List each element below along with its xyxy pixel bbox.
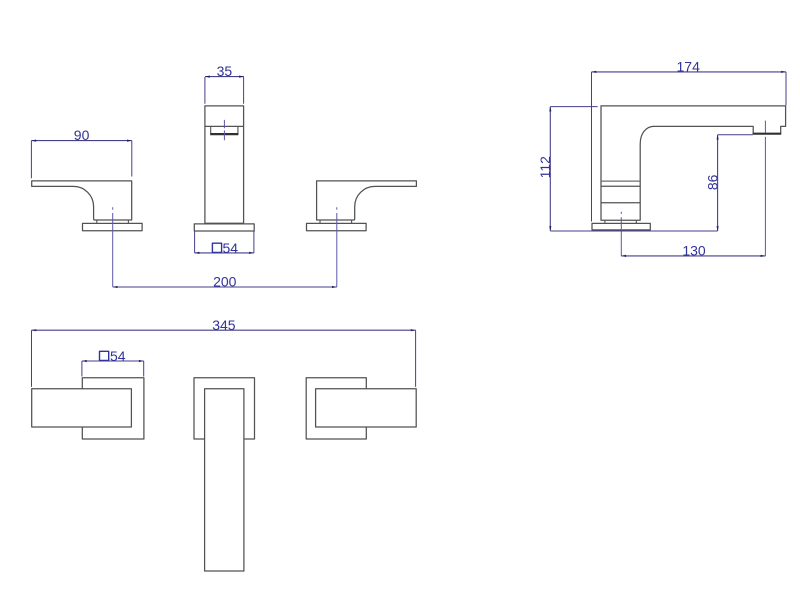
spout aerator front <box>211 126 238 134</box>
side nozzle centerline <box>764 121 766 256</box>
dimension 112 extension top <box>550 106 597 108</box>
right handle escutcheon <box>307 223 367 230</box>
side valve centerline <box>620 212 622 256</box>
side body internal line 1 <box>601 180 640 182</box>
dimension 174 line <box>592 71 787 73</box>
dimension square54 front line <box>195 252 254 254</box>
plan right lever <box>316 389 417 427</box>
spout body front <box>205 106 244 223</box>
left handle stem tick right <box>127 220 129 223</box>
svg-text:86: 86 <box>704 174 720 190</box>
svg-text:112: 112 <box>537 156 553 179</box>
dimension 35 arrows <box>205 76 244 78</box>
dimension 86 extension top <box>718 134 753 136</box>
dimension 174 arrows <box>592 71 787 73</box>
left handle escutcheon <box>83 223 143 230</box>
left handle centerline <box>112 207 114 287</box>
spout cap line front <box>205 125 244 127</box>
side stem tick right <box>635 220 637 223</box>
plan middle escutcheon square <box>194 378 255 439</box>
side body outline <box>601 106 786 220</box>
svg-text:90: 90 <box>74 127 90 143</box>
svg-text:130: 130 <box>682 243 706 259</box>
spout aerator bottom thick <box>210 133 238 135</box>
svg-text:35: 35 <box>217 63 233 79</box>
svg-text:54: 54 <box>223 240 239 256</box>
dimension square54 front square glyph <box>212 243 221 252</box>
dimension 130 line <box>621 255 765 257</box>
plan right escutcheon square <box>306 378 366 439</box>
dimension 174 extension right <box>785 72 787 106</box>
dimension 86 arrows <box>717 135 719 231</box>
dimension square54 front extension lines <box>195 231 254 253</box>
dimension 345 extension left <box>31 330 33 387</box>
dimension 90 extension line left <box>30 141 32 179</box>
side body internal line 3 <box>601 202 640 204</box>
dimension 345 line <box>32 329 416 331</box>
spout centerline front <box>223 120 225 140</box>
right handle centerline <box>336 207 338 287</box>
right handle stem tick right <box>351 220 353 223</box>
left handle lever outline <box>32 181 132 220</box>
spout escutcheon front <box>194 224 254 231</box>
plan left escutcheon square <box>82 378 144 439</box>
dimension square54 plan extension lines <box>82 361 144 377</box>
side escutcheon <box>592 223 650 230</box>
dimension 35 extension lines <box>205 77 244 104</box>
dimension 112 line <box>549 107 551 231</box>
dimension square54 front arrows <box>195 252 254 254</box>
dimension 90 line <box>31 140 131 142</box>
dimension 345 extension right <box>415 330 417 387</box>
dimension 90 extension line right <box>131 141 133 177</box>
dimension 345 arrows <box>32 329 416 331</box>
dimension 130 arrows <box>621 255 765 257</box>
svg-text:174: 174 <box>677 59 701 75</box>
dimension square54 plan square glyph <box>100 351 109 360</box>
svg-text:54: 54 <box>110 348 126 364</box>
right handle lever outline <box>317 181 417 220</box>
side stem tick left <box>604 220 606 223</box>
dimension 35 line <box>205 76 244 78</box>
dimension 90 arrows <box>31 140 131 142</box>
right handle stem tick left <box>319 220 321 223</box>
dimension square54 plan line <box>82 360 144 362</box>
dimension 86 line <box>717 135 719 231</box>
dimension 200 line <box>113 286 337 288</box>
dimension 200 arrows <box>113 286 337 288</box>
dimension 112 arrows <box>549 107 551 231</box>
side nozzle bottom thick <box>753 133 781 135</box>
dimension 174 extension left <box>591 72 593 222</box>
dimension square54 plan arrows <box>82 360 144 362</box>
plan left lever <box>32 389 132 427</box>
svg-text:200: 200 <box>213 274 237 290</box>
plan spout arm <box>205 389 244 571</box>
mounting plane reference line <box>550 230 717 232</box>
svg-text:345: 345 <box>212 317 236 333</box>
side body internal line 2 <box>601 185 640 187</box>
left handle stem tick left <box>96 220 98 223</box>
